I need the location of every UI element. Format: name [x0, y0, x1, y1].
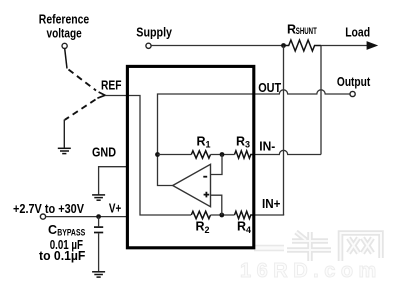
- watermark 网: [341, 233, 382, 261]
- svg-text:Output: Output: [337, 75, 371, 89]
- wire right vertical (shunt right to IN-): [320, 46, 322, 155]
- node feedback/R1 junction: [155, 152, 160, 157]
- watermark 牛: [287, 232, 331, 261]
- IC box: [127, 66, 253, 247]
- wire R1 to junction: [211, 154, 235, 156]
- dashed wire to REF node: [69, 70, 97, 91]
- svg-text:Reference: Reference: [39, 13, 89, 27]
- wire REF into box down to bottom row: [105, 96, 191, 216]
- svg-text:R: R: [287, 23, 296, 37]
- resistor R3: [235, 151, 254, 158]
- resistor R4: [235, 211, 254, 218]
- node supply/R_shunt junction: [281, 43, 286, 48]
- watermark 一: [254, 245, 284, 252]
- svg-text:BYPASS: BYPASS: [57, 227, 85, 237]
- dashed wire to ground: [65, 100, 96, 120]
- chevron at REF node: [97, 92, 105, 98]
- op-amp minus sign: [203, 176, 207, 178]
- wire to ground 1: [63, 120, 65, 148]
- node V+/bypass junction: [96, 214, 101, 219]
- svg-text:R: R: [236, 134, 245, 148]
- node R2/R4 junction: [219, 213, 224, 218]
- wire to load: [321, 45, 369, 47]
- wire left vertical (shunt left to IN+): [283, 46, 285, 216]
- svg-text:V+: V+: [109, 202, 121, 216]
- terminal supply: [146, 43, 151, 48]
- svg-text:R: R: [237, 220, 246, 234]
- svg-text:SHUNT: SHUNT: [296, 26, 317, 36]
- svg-text:Load: Load: [345, 26, 370, 40]
- resistor R1: [191, 151, 210, 158]
- svg-text:OUT: OUT: [258, 81, 281, 95]
- ground (bypass): [92, 272, 105, 277]
- wire junction to inverting input: [211, 155, 222, 175]
- svg-text:R: R: [197, 134, 206, 148]
- wire IN+: [254, 214, 285, 216]
- terminal reference voltage: [62, 43, 67, 48]
- svg-text:C: C: [48, 223, 57, 237]
- wire R1 row: [158, 154, 192, 156]
- resistor R_SHUNT: [284, 40, 322, 51]
- svg-text:16RD.com: 16RD.com: [240, 260, 382, 282]
- terminal output: [350, 91, 355, 96]
- terminal V+ supply: [40, 214, 45, 219]
- svg-text:IN+: IN+: [262, 197, 281, 211]
- svg-text:to 0.1µF: to 0.1µF: [39, 249, 86, 263]
- resistor R2: [191, 211, 210, 218]
- op-amp U1: [173, 164, 211, 206]
- svg-text:REF: REF: [101, 78, 122, 92]
- wire R2 to junction: [211, 214, 235, 216]
- capacitor C_BYPASS: [98, 217, 100, 227]
- svg-text:3: 3: [245, 140, 250, 150]
- svg-text:R: R: [196, 220, 205, 234]
- ground (GND pin): [92, 195, 105, 200]
- wire V+: [46, 216, 129, 218]
- svg-text:voltage: voltage: [47, 27, 82, 41]
- wire GND pin: [99, 167, 129, 195]
- wire feedback from op-amp output to OUT: [158, 94, 254, 186]
- wire IN- with hop: [254, 150, 322, 154]
- wire from reference terminal: [65, 49, 67, 69]
- node R1/R3 junction: [220, 152, 225, 157]
- wire junction to non-inverting input: [211, 195, 222, 215]
- op-amp plus sign: [204, 192, 210, 198]
- load arrow: [367, 41, 379, 50]
- wire OUT with hops: [254, 90, 351, 94]
- svg-text:GND: GND: [92, 145, 116, 159]
- wire supply: [151, 45, 283, 47]
- svg-text:4: 4: [246, 225, 251, 235]
- ground (reference): [58, 148, 71, 153]
- svg-text:+2.7V to +30V: +2.7V to +30V: [13, 202, 85, 216]
- svg-text:1: 1: [206, 140, 211, 150]
- svg-text:Supply: Supply: [136, 26, 172, 40]
- svg-text:2: 2: [205, 225, 210, 235]
- svg-text:IN-: IN-: [259, 139, 275, 153]
